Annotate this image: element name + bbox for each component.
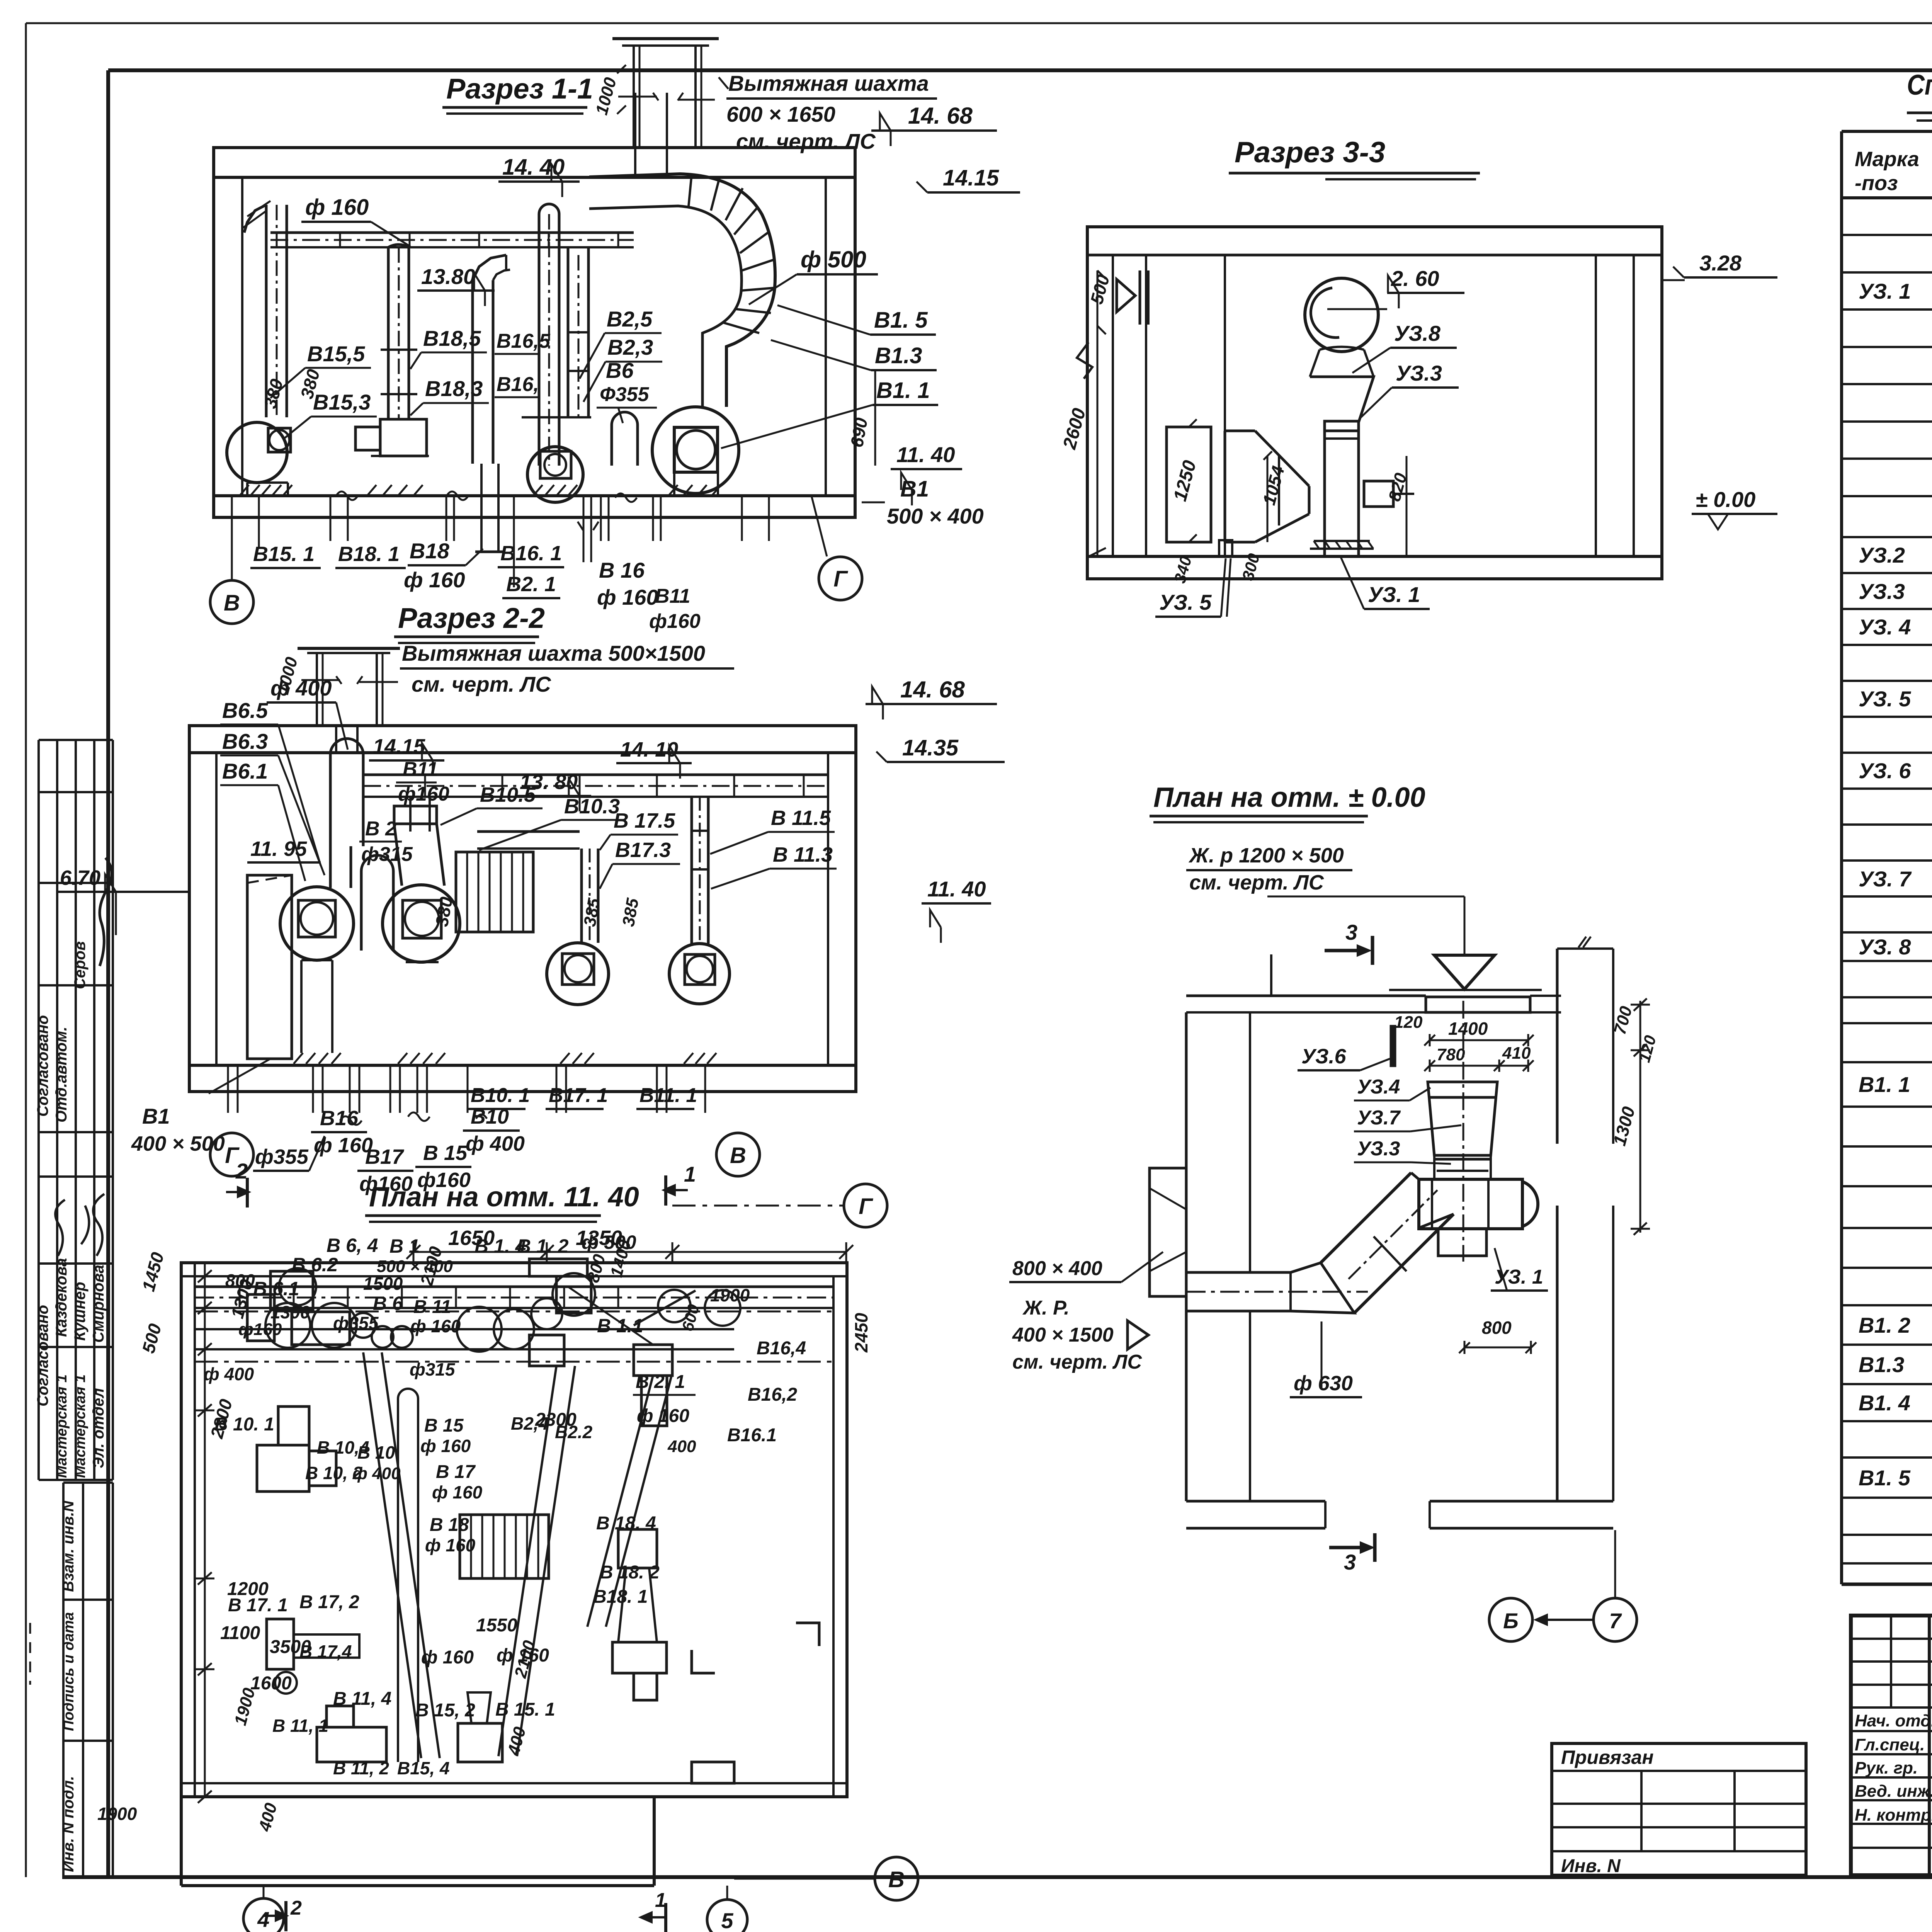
svg-text:14. 68: 14. 68 [908, 103, 973, 129]
svg-text:см. черт. ЛС: см. черт. ЛС [1012, 1351, 1142, 1373]
svg-text:ф 160: ф 160 [432, 1482, 483, 1502]
left door rect [247, 875, 292, 1059]
svg-text:В 16: В 16 [599, 558, 645, 582]
svg-text:В15. 1: В15. 1 [253, 543, 315, 566]
machine room box section 1-1 [214, 148, 855, 517]
svg-text:500: 500 [1086, 272, 1113, 306]
left wall [1185, 1012, 1188, 1168]
exhaust shaft symbol 2 [298, 647, 400, 650]
duct V18 riser [387, 247, 390, 419]
svg-text:2. 60: 2. 60 [1391, 266, 1439, 291]
duct elbow lower [1291, 1263, 1354, 1313]
svg-text:УЗ.3: УЗ.3 [1396, 361, 1442, 385]
svg-text:1550: 1550 [476, 1615, 517, 1636]
wall break mark [1077, 342, 1092, 379]
svg-text:В6.3: В6.3 [222, 729, 268, 753]
svg-text:2: 2 [235, 1159, 248, 1183]
inlet triangle [1434, 955, 1495, 989]
transition funnel U3.7 [1225, 430, 1255, 432]
plan heater box [460, 1515, 549, 1578]
svg-text:УЗ. 1: УЗ. 1 [1859, 279, 1911, 303]
svg-text:7: 7 [1609, 1609, 1622, 1633]
floor break marks [336, 492, 637, 502]
svg-text:В: В [888, 1867, 905, 1892]
svg-text:УЗ. 5: УЗ. 5 [1859, 687, 1911, 711]
svg-text:410: 410 [1502, 1044, 1531, 1063]
svg-text:Гл.спец.: Гл.спец. [1855, 1735, 1925, 1754]
machine room box section 2-2 [189, 726, 856, 1092]
svg-text:1900: 1900 [97, 1804, 137, 1824]
svg-text:В 11.5: В 11.5 [771, 806, 831, 830]
svg-text:В 11, 2: В 11, 2 [333, 1758, 389, 1778]
svg-text:УЗ. 4: УЗ. 4 [1859, 615, 1911, 639]
svg-text:см. черт. ЛС: см. черт. ЛС [1189, 871, 1324, 894]
plan V15 bottom unit [458, 1723, 502, 1762]
svg-text:ф 400: ф 400 [466, 1132, 525, 1155]
grid circle G plan [844, 1184, 887, 1227]
opening dims 1400 780 410 120 [1430, 1039, 1528, 1041]
left stamp table upper [37, 740, 40, 1480]
svg-text:1250: 1250 [1170, 458, 1200, 503]
svg-text:ф 160: ф 160 [637, 1406, 689, 1426]
horizontal run top [363, 774, 828, 776]
door U3.6 black bar [1390, 1025, 1396, 1067]
svg-text:Инв. N: Инв. N [1561, 1856, 1621, 1876]
svg-text:В11: В11 [403, 758, 438, 781]
big elbow f500 [589, 174, 775, 407]
svg-text:ф160: ф160 [649, 610, 701, 633]
svg-text:В6.1: В6.1 [222, 759, 268, 783]
svg-text:УЗ. 1: УЗ. 1 [1368, 582, 1420, 607]
svg-text:В6: В6 [606, 358, 634, 383]
svg-text:1500: 1500 [363, 1274, 403, 1294]
svg-text:В 6, 4: В 6, 4 [327, 1235, 378, 1256]
svg-text:1: 1 [684, 1162, 696, 1186]
svg-text:14.15: 14.15 [373, 735, 425, 758]
svg-text:Марка: Марка [1855, 148, 1919, 171]
stand U3.5 [1219, 540, 1232, 556]
svg-text:ф 160: ф 160 [305, 195, 369, 220]
svg-text:Привязан: Привязан [1561, 1747, 1654, 1768]
svg-text:В 17. 1: В 17. 1 [228, 1595, 288, 1616]
specification table grid [1840, 131, 1843, 1584]
svg-text:ф315: ф315 [361, 843, 413, 866]
section mark 1 bottom [664, 1903, 667, 1932]
svg-text:УЗ.3: УЗ.3 [1357, 1138, 1400, 1160]
svg-text:Мастерская 1: Мастерская 1 [54, 1374, 70, 1478]
svg-text:Ф355: Ф355 [600, 383, 649, 406]
svg-text:В 15. 1: В 15. 1 [495, 1699, 555, 1720]
svg-text:УЗ. 5: УЗ. 5 [1159, 590, 1212, 614]
svg-text:3.28: 3.28 [1699, 251, 1742, 275]
plan V11 bottom unit [317, 1727, 386, 1762]
fan V11 unit right [669, 944, 730, 1004]
svg-text:В 17.5: В 17.5 [614, 809, 675, 832]
svg-text:УЗ. 6: УЗ. 6 [1859, 759, 1911, 783]
svg-text:В 11.3: В 11.3 [773, 843, 833, 866]
svg-text:В1. 1: В1. 1 [876, 378, 930, 403]
plan door symbols [692, 1650, 715, 1673]
svg-text:385: 385 [619, 896, 643, 928]
plan lower-left extension [180, 1797, 183, 1886]
fan base 3-3 [1314, 540, 1370, 542]
svg-text:Спецификация Отопительно-вент: Спецификация Отопительно-вентиляционных … [1907, 69, 1932, 101]
svg-text:14. 40: 14. 40 [502, 155, 565, 180]
svg-text:В15, 4: В15, 4 [397, 1758, 450, 1778]
plan V10 cluster [257, 1445, 309, 1492]
svg-text:Вед. инж.: Вед. инж. [1855, 1782, 1932, 1801]
svg-text:В1: В1 [142, 1104, 170, 1128]
svg-text:В10. 1: В10. 1 [471, 1084, 530, 1107]
plan middle circles [372, 1326, 393, 1348]
svg-text:В1. 4: В1. 4 [1859, 1391, 1910, 1415]
svg-text:4: 4 [257, 1907, 269, 1932]
svg-text:В 17: В 17 [436, 1462, 476, 1482]
plan dashed axes [195, 1311, 833, 1313]
svg-text:1100: 1100 [220, 1623, 260, 1643]
svg-text:В 15, 2: В 15, 2 [415, 1700, 475, 1721]
svg-text:5: 5 [721, 1908, 733, 1932]
svg-text:385: 385 [580, 896, 604, 928]
svg-text:ф 160: ф 160 [410, 1316, 461, 1336]
svg-text:План на отм. ± 0.00: План на отм. ± 0.00 [1153, 782, 1425, 813]
svg-text:Подпись и дата: Подпись и дата [61, 1612, 77, 1731]
svg-text:Мастерская 1: Мастерская 1 [72, 1374, 88, 1478]
svg-text:ф355: ф355 [333, 1313, 379, 1333]
fan V18.1 block [380, 419, 427, 456]
heater striped box [456, 852, 533, 932]
svg-text:В 10. 1: В 10. 1 [214, 1414, 274, 1435]
plan vertical duct pair f160 [397, 1399, 399, 1762]
svg-text:В11. 1: В11. 1 [639, 1084, 697, 1107]
fan U3.1 plan [1419, 1179, 1522, 1229]
pipe V18 under floor [480, 464, 483, 552]
svg-text:В16.1: В16.1 [727, 1425, 777, 1446]
svg-text:Вытяжная шахта: Вытяжная шахта [728, 71, 929, 95]
plan 0.00 top walls [1186, 995, 1426, 997]
svg-text:2600: 2600 [1059, 406, 1090, 452]
roof shaft opening 2 [335, 726, 337, 753]
svg-text:800 × 400: 800 × 400 [1012, 1257, 1102, 1280]
svg-text:780: 780 [1437, 1045, 1465, 1064]
under floor stubs 2-2 [227, 1065, 229, 1113]
svg-text:Ж. Р.: Ж. Р. [1022, 1297, 1070, 1319]
svg-text:14.15: 14.15 [943, 165, 999, 190]
grid circle 4 [243, 1898, 284, 1932]
plan left cluster V6 [270, 1271, 313, 1310]
svg-text:1900: 1900 [710, 1285, 750, 1305]
svg-text:УЗ.4: УЗ.4 [1357, 1076, 1400, 1098]
svg-text:ф 400: ф 400 [352, 1464, 401, 1483]
svg-text:В16,2: В16,2 [748, 1384, 797, 1405]
svg-text:В 15: В 15 [424, 1415, 464, 1436]
svg-text:11. 40: 11. 40 [927, 877, 986, 901]
plan V18 unit right [618, 1529, 657, 1568]
svg-text:14. 68: 14. 68 [900, 677, 965, 702]
svg-text:340: 340 [1170, 554, 1195, 585]
svg-text:см. черт. ЛС: см. черт. ЛС [412, 672, 551, 696]
right wall [1556, 949, 1559, 1144]
sheet outer border [26, 22, 1932, 24]
plan top duct run V1 [195, 1286, 833, 1288]
svg-text:В 17, 2: В 17, 2 [299, 1592, 359, 1612]
svg-text:В 15: В 15 [423, 1141, 468, 1165]
svg-text:Смирнова: Смирнова [90, 1265, 107, 1343]
svg-text:В 11, 4: В 11, 4 [333, 1689, 391, 1709]
svg-text:В 1: В 1 [389, 1235, 420, 1257]
svg-text:ф160: ф160 [398, 783, 449, 805]
svg-text:УЗ. 1: УЗ. 1 [1495, 1266, 1543, 1288]
svg-text:800: 800 [225, 1270, 255, 1291]
svg-text:120: 120 [1635, 1033, 1660, 1064]
svg-text:3500: 3500 [270, 1637, 311, 1657]
svg-text:В17: В17 [365, 1145, 405, 1168]
svg-text:В1: В1 [900, 476, 929, 502]
duct V2 riser [567, 247, 570, 417]
svg-text:В 11: В 11 [413, 1297, 451, 1317]
svg-text:ф 160: ф 160 [425, 1535, 476, 1555]
svg-text:11. 40: 11. 40 [896, 442, 955, 467]
svg-text:В: В [224, 590, 240, 616]
svg-text:В 10: В 10 [357, 1442, 395, 1463]
svg-text:3: 3 [1345, 920, 1357, 944]
fan V17 unit [547, 943, 609, 1005]
left inlet box [1150, 1168, 1186, 1296]
grid circle 5 [707, 1900, 747, 1932]
svg-text:Взам. инв.N: Взам. инв.N [60, 1500, 77, 1592]
duct horizontal 0.00 [1186, 1271, 1291, 1274]
svg-text:400: 400 [667, 1437, 696, 1456]
svg-text:1400: 1400 [1448, 1019, 1488, 1039]
svg-text:ф160: ф160 [238, 1320, 282, 1339]
svg-text:Н. контр.: Н. контр. [1855, 1806, 1932, 1825]
svg-text:В18,3: В18,3 [425, 376, 483, 401]
svg-text:УЗ.7: УЗ.7 [1357, 1107, 1401, 1129]
svg-text:1900: 1900 [231, 1686, 259, 1728]
plan extra circles right [705, 1290, 740, 1326]
bottom walls [1186, 1500, 1325, 1503]
plan V17 cluster [267, 1619, 294, 1669]
svg-text:В1. 2: В1. 2 [1859, 1313, 1910, 1337]
svg-text:В2,5: В2,5 [607, 307, 653, 331]
svg-text:В17. 1: В17. 1 [549, 1084, 608, 1107]
duct from shaft to elbow [634, 148, 636, 179]
svg-text:УЗ.6: УЗ.6 [1301, 1045, 1347, 1068]
plan dimension verticals [204, 1263, 206, 1797]
funnel U3.7 plan [1428, 1082, 1497, 1155]
svg-text:В10.5: В10.5 [480, 783, 536, 806]
svg-text:В 11, 1: В 11, 1 [272, 1716, 328, 1736]
svg-text:1450: 1450 [138, 1250, 168, 1294]
svg-text:400: 400 [255, 1801, 281, 1833]
svg-text:ф 630: ф 630 [1294, 1372, 1353, 1395]
svg-text:В 6.2: В 6.2 [292, 1254, 338, 1276]
circle B and 7 [1489, 1598, 1532, 1641]
svg-text:14.35: 14.35 [902, 735, 959, 760]
svg-text:Согласовано: Согласовано [34, 1305, 51, 1406]
svg-text:УЗ.8: УЗ.8 [1394, 321, 1441, 345]
svg-text:УЗ.3: УЗ.3 [1859, 579, 1905, 604]
duct from f400 to fan V6 [329, 846, 332, 888]
svg-text:УЗ.2: УЗ.2 [1859, 543, 1905, 567]
duct f160 horizontal run [270, 231, 634, 234]
svg-text:ф 160: ф 160 [404, 568, 465, 592]
svg-text:ф 400: ф 400 [204, 1364, 254, 1384]
svg-text:В11: В11 [655, 585, 690, 607]
duct V15 riser left [265, 205, 268, 417]
supply flag left [1117, 279, 1135, 312]
svg-text:В10.3: В10.3 [564, 795, 620, 818]
svg-text:В18. 1: В18. 1 [338, 543, 400, 566]
fan V15.1 [227, 422, 287, 483]
svg-text:В 1. 2: В 1. 2 [517, 1235, 569, 1257]
svg-text:В18: В18 [410, 539, 450, 563]
svg-text:В1. 5: В1. 5 [874, 308, 928, 333]
svg-text:Инв. N подл.: Инв. N подл. [60, 1776, 77, 1872]
svg-text:В6.5: В6.5 [222, 698, 268, 723]
svg-text:В17.3: В17.3 [615, 838, 671, 862]
svg-text:Кушнер: Кушнер [71, 1282, 88, 1341]
svg-text:Каздекова: Каздекова [53, 1258, 70, 1337]
svg-text:600 × 1650: 600 × 1650 [726, 102, 835, 126]
svg-text:Нач. отд.: Нач. отд. [1855, 1711, 1932, 1730]
svg-text:2300: 2300 [535, 1410, 577, 1430]
svg-text:План на отм. 11. 40: План на отм. 11. 40 [369, 1182, 639, 1213]
svg-text:В16,4: В16,4 [757, 1338, 806, 1359]
svg-text:В 2: В 2 [365, 818, 396, 840]
svg-text:ф 500: ф 500 [801, 247, 866, 272]
svg-text:6.70: 6.70 [60, 866, 100, 889]
svg-text:ф 160: ф 160 [420, 1436, 471, 1456]
svg-text:ф 400: ф 400 [270, 676, 332, 700]
signature scribble upper 2 [81, 1194, 104, 1256]
svg-text:В 18: В 18 [430, 1515, 469, 1535]
svg-text:Согласовано: Согласовано [34, 1015, 51, 1117]
svg-text:ф 160: ф 160 [597, 585, 658, 609]
section mark 2 bottom [284, 1901, 287, 1931]
svg-text:В: В [730, 1143, 746, 1168]
svg-text:13.80: 13.80 [421, 264, 475, 289]
svg-text:Разрез 3-3: Разрез 3-3 [1235, 136, 1385, 169]
svg-text:Вытяжная шахта 500×1500: Вытяжная шахта 500×1500 [402, 641, 705, 665]
svg-text:1000: 1000 [592, 75, 620, 117]
svg-text:380: 380 [260, 377, 287, 411]
roof shaft opening [634, 93, 636, 148]
fan V2.1 center [527, 447, 583, 502]
horizontal run upper right [477, 830, 580, 833]
svg-text:УЗ. 8: УЗ. 8 [1859, 935, 1911, 959]
room box section 3-3 [1087, 227, 1662, 579]
duct f400 riser [329, 753, 332, 846]
svg-text:В16: В16 [320, 1107, 359, 1130]
svg-text:Серов: Серов [71, 941, 88, 989]
duct V16 middle with elbow 13.80 [471, 280, 474, 464]
fan V10 unit [383, 885, 460, 962]
exhaust shaft symbol [612, 37, 719, 40]
svg-text:Б: Б [1503, 1609, 1519, 1633]
grid circle G right [819, 557, 862, 600]
svg-text:690: 690 [847, 416, 872, 449]
svg-text:120: 120 [1394, 1013, 1423, 1032]
duct V6 stub [611, 425, 613, 466]
svg-text:В18. 1: В18. 1 [593, 1587, 648, 1607]
svg-text:В1.3: В1.3 [875, 343, 922, 368]
svg-text:11. 95: 11. 95 [250, 837, 307, 861]
svg-text:УЗ. 7: УЗ. 7 [1859, 867, 1912, 891]
section mark 1 top [664, 1175, 667, 1206]
svg-text:Г: Г [859, 1194, 873, 1219]
svg-text:В1.3: В1.3 [1859, 1352, 1904, 1377]
svg-text:В2,3: В2,3 [607, 335, 653, 359]
dashed vertical mark [29, 1623, 31, 1685]
svg-text:ф 160: ф 160 [314, 1134, 373, 1157]
plan V1 fan cluster right [529, 1259, 587, 1276]
svg-text:В 6: В 6 [373, 1293, 403, 1314]
svg-text:В15,3: В15,3 [313, 390, 371, 414]
title block frame [1851, 1616, 1932, 1875]
svg-text:500 × 400: 500 × 400 [887, 504, 984, 528]
duct diagonal 0.00 [1321, 1173, 1411, 1263]
plan V16 unit [634, 1345, 672, 1376]
V10 funnel above fan [394, 824, 444, 886]
fan V6 unit [280, 887, 354, 960]
signature scribble upper [100, 858, 112, 966]
privyazan table [1552, 1743, 1806, 1875]
plan duct diagonals [363, 1352, 421, 1758]
section mark 2 top [246, 1178, 249, 1207]
svg-text:ф315: ф315 [410, 1359, 456, 1379]
svg-text:Отд.автом.: Отд.автом. [53, 1027, 70, 1122]
svg-text:ф355: ф355 [255, 1145, 309, 1168]
riser V11 from run [409, 797, 412, 832]
heater rect 1250 [1167, 427, 1211, 542]
svg-text:800: 800 [1482, 1318, 1512, 1338]
svg-text:1: 1 [655, 1889, 666, 1912]
fan V1.1 big right [652, 407, 739, 493]
svg-text:Эл. отдел: Эл. отдел [90, 1388, 107, 1468]
svg-text:400: 400 [504, 1725, 530, 1757]
duct V16 riser tall [538, 214, 541, 466]
svg-text:Разрез 1-1: Разрез 1-1 [446, 73, 593, 105]
svg-text:1054: 1054 [1259, 464, 1288, 507]
svg-text:Г: Г [833, 566, 848, 592]
svg-text:В16,: В16, [497, 373, 539, 396]
svg-text:400 × 1500: 400 × 1500 [1012, 1324, 1114, 1346]
plan extra diagonal [634, 1291, 696, 1325]
svg-text:2: 2 [290, 1897, 302, 1919]
svg-text:В 6.1: В 6.1 [253, 1278, 299, 1299]
fan unit section 3-3 [1305, 278, 1378, 352]
under-floor stubs [330, 496, 332, 541]
duct elbow upper [1411, 1173, 1454, 1228]
plan outer walls [181, 1263, 847, 1797]
svg-text:В1. 5: В1. 5 [1859, 1466, 1911, 1490]
plan duct run f355 [195, 1328, 734, 1330]
left stamp table lower [62, 1483, 65, 1877]
grid circle V plan [875, 1857, 918, 1900]
svg-text:± 0.00: ± 0.00 [1696, 487, 1755, 512]
grid circle B left [210, 580, 253, 624]
svg-text:500: 500 [138, 1321, 165, 1355]
svg-text:В15,5: В15,5 [307, 342, 365, 366]
svg-text:-поз: -поз [1855, 172, 1898, 195]
svg-text:В16. 1: В16. 1 [500, 542, 562, 565]
svg-text:Ж. р 1200 × 500: Ж. р 1200 × 500 [1188, 844, 1344, 867]
collar U3.3 [1434, 1158, 1491, 1161]
title block left rows [1851, 1638, 1932, 1640]
duct V2 arch [360, 871, 363, 951]
svg-text:ф 160: ф 160 [421, 1647, 474, 1668]
